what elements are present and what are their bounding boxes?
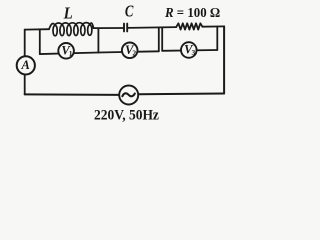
AC source [119,86,138,105]
svg-text:R = 100 Ω: R = 100 Ω [164,4,220,20]
wire tap at node between source and L [39,29,41,54]
svg-text:3: 3 [192,48,196,57]
wire tap between L and C [97,29,99,53]
wire tap left of R [161,27,163,50]
wire left vertical upper [24,30,26,57]
inductor L coil [49,23,94,36]
wire capacitor to resistor [128,26,176,29]
svg-text:1: 1 [69,49,73,58]
wire bus through V3 [162,49,217,52]
wire right vertical [223,26,225,93]
svg-text:220V, 50Hz: 220V, 50Hz [94,107,160,124]
svg-text:A: A [21,58,30,72]
svg-text:L: L [63,4,73,22]
svg-text:C: C [125,3,134,21]
wire bottom right [138,93,224,96]
resistor R zigzag [176,23,202,29]
wire resistor to top-right corner [202,25,224,27]
svg-text:2: 2 [132,49,136,58]
wire tap right of R [216,27,218,51]
capacitor C plates [124,24,127,32]
ammeter A [17,56,35,74]
wire bottom left [25,93,120,96]
voltmeter V1 [58,43,74,59]
wire top-left segment [25,28,49,30]
wire coil to capacitor [94,27,124,29]
voltmeter V3 [181,42,197,58]
wire bus through V1 [40,53,99,55]
voltmeter V2 [122,43,138,59]
wire left vertical lower [24,74,26,94]
wire bus through V2 [98,51,158,52]
wire tap right of C [158,28,160,52]
